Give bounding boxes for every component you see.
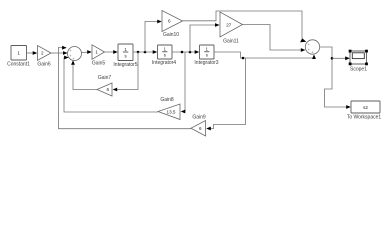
sum Sum2 xyxy=(305,40,319,55)
wire to Scope1 xyxy=(332,56,350,60)
wire Gain6 to Sum1 xyxy=(51,51,68,55)
node tap to Gain8 xyxy=(181,51,184,54)
svg-text:1: 1 xyxy=(95,50,98,55)
wire branch down to Gain8 xyxy=(181,52,186,113)
gain Gain8 xyxy=(158,97,180,120)
wire Integrator4 to Integrator3 xyxy=(172,50,199,54)
svg-text:s: s xyxy=(206,53,208,58)
integrator Integrator4 xyxy=(152,45,176,66)
wire riser to Gain10 xyxy=(145,20,162,52)
node tap to Gain10 xyxy=(144,51,147,54)
svg-text:To Workspace1: To Workspace1 xyxy=(347,115,382,121)
gain Gain9 xyxy=(191,115,206,137)
svg-text:Integrator4: Integrator4 xyxy=(152,60,176,66)
svg-text:2: 2 xyxy=(41,51,44,56)
gain Gain6 xyxy=(37,46,51,68)
wire Gain8 return to Sum1 lower-left xyxy=(64,56,158,112)
svg-text:+: + xyxy=(73,57,75,61)
node tap to Gain7 xyxy=(137,51,140,54)
svg-text:Integrator3: Integrator3 xyxy=(194,60,218,66)
svg-text:27: 27 xyxy=(226,22,232,27)
svg-text:Gain9: Gain9 xyxy=(192,115,206,121)
svg-text:Gain5: Gain5 xyxy=(92,61,106,67)
wire Gain7 return to Sum1 bottom xyxy=(71,60,97,89)
svg-text:Constant1: Constant1 xyxy=(7,62,30,68)
gain Gain10 xyxy=(162,11,183,39)
svg-text:Integrator5: Integrator5 xyxy=(113,62,137,68)
wire Sum1 to Gain5 xyxy=(82,50,92,54)
wire Gain5 to Integrator5 xyxy=(105,50,118,54)
integrator Integrator3 xyxy=(194,45,218,66)
svg-text:s2: s2 xyxy=(363,105,368,110)
svg-text:Gain6: Gain6 xyxy=(37,62,51,68)
svg-text:Gain8: Gain8 xyxy=(160,97,174,103)
wire Gain10 to Sum2 top xyxy=(183,11,307,42)
integrator Integrator5 xyxy=(113,44,137,68)
svg-text:+: + xyxy=(311,51,313,55)
svg-text:Gain7: Gain7 xyxy=(98,75,112,81)
svg-text:s: s xyxy=(164,53,166,58)
node tap to Gain11 xyxy=(189,51,192,54)
sum Sum1 xyxy=(68,47,82,61)
wire Integrator3 to Sum2 bottom xyxy=(214,52,316,59)
svg-text:+: + xyxy=(308,48,310,52)
wire Sum2 output to To Workspace1 xyxy=(320,47,351,109)
svg-text:6: 6 xyxy=(168,19,171,24)
gain Gain11 xyxy=(220,12,243,45)
svg-text:+: + xyxy=(308,43,310,47)
constant Constant1 xyxy=(7,46,30,68)
svg-text:Scope1: Scope1 xyxy=(350,66,367,72)
gain Gain7 xyxy=(97,75,112,96)
svg-text:6: 6 xyxy=(107,87,110,92)
node tap to Gain9 xyxy=(242,57,245,60)
gain Gain5 xyxy=(92,45,106,67)
wire Gain9 return to Sum1 upper-left xyxy=(59,46,192,129)
svg-text:+: + xyxy=(69,54,71,58)
node tap to Scope1 xyxy=(331,57,334,60)
to-workspace To Workspace1 xyxy=(347,101,382,121)
wire Constant1 to Gain6 xyxy=(27,51,38,55)
svg-text:13.5: 13.5 xyxy=(167,109,176,114)
svg-text:Gain10: Gain10 xyxy=(163,32,179,38)
wire Gain11 to Sum2 left xyxy=(243,25,306,52)
wire branch down to Gain7 xyxy=(113,52,138,91)
svg-text:+: + xyxy=(70,49,72,53)
scope Scope1 xyxy=(349,50,368,73)
svg-text:1: 1 xyxy=(17,51,20,56)
svg-text:Gain11: Gain11 xyxy=(223,39,239,45)
svg-text:6: 6 xyxy=(199,126,202,131)
wire riser to Gain11 xyxy=(190,23,220,52)
wire Integrator5 to Integrator4 xyxy=(133,50,157,54)
wire branch down to Gain9 xyxy=(206,58,245,130)
